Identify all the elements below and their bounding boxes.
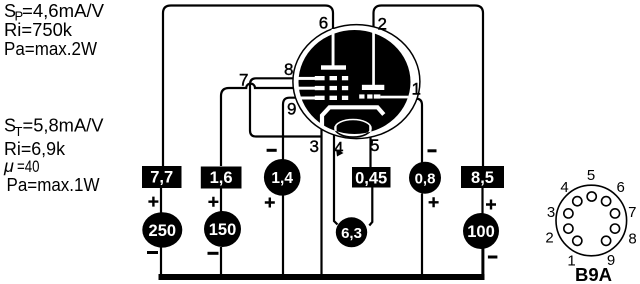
svg-text:6: 6: [617, 179, 625, 196]
svg-text:T: T: [15, 124, 23, 139]
svg-text:8: 8: [628, 231, 636, 248]
svg-text:7: 7: [628, 204, 636, 221]
svg-text:0,8: 0,8: [415, 171, 436, 188]
svg-text:5: 5: [370, 136, 379, 155]
svg-text:8,5: 8,5: [471, 169, 494, 187]
svg-text:150: 150: [209, 221, 237, 239]
svg-text:1,4: 1,4: [271, 170, 293, 187]
svg-text:Pa=max.2W: Pa=max.2W: [4, 39, 97, 59]
svg-text:=4,6mA/V: =4,6mA/V: [22, 1, 104, 21]
svg-text:μ: μ: [3, 156, 14, 176]
svg-text:=40: =40: [17, 158, 40, 176]
svg-text:3: 3: [310, 137, 319, 156]
svg-text:7: 7: [239, 71, 248, 90]
svg-text:100: 100: [467, 223, 495, 241]
svg-text:=5,8mA/V: =5,8mA/V: [23, 116, 104, 136]
svg-text:9: 9: [287, 100, 296, 119]
svg-text:7,7: 7,7: [150, 169, 173, 187]
svg-text:2: 2: [545, 230, 553, 247]
svg-text:8: 8: [284, 60, 293, 79]
svg-text:B9A: B9A: [575, 264, 612, 284]
svg-text:6,3: 6,3: [341, 225, 362, 242]
svg-text:1: 1: [412, 80, 421, 99]
svg-text:Pa=max.1W: Pa=max.1W: [7, 175, 100, 195]
svg-text:Ri=750k: Ri=750k: [4, 20, 73, 40]
svg-text:1,6: 1,6: [210, 169, 233, 187]
svg-text:2: 2: [378, 15, 387, 34]
svg-text:3: 3: [547, 204, 555, 221]
svg-text:250: 250: [149, 222, 177, 240]
svg-text:6: 6: [319, 14, 328, 33]
svg-text:5: 5: [587, 167, 595, 184]
svg-text:4: 4: [560, 179, 568, 196]
svg-text:0,45: 0,45: [355, 170, 387, 188]
